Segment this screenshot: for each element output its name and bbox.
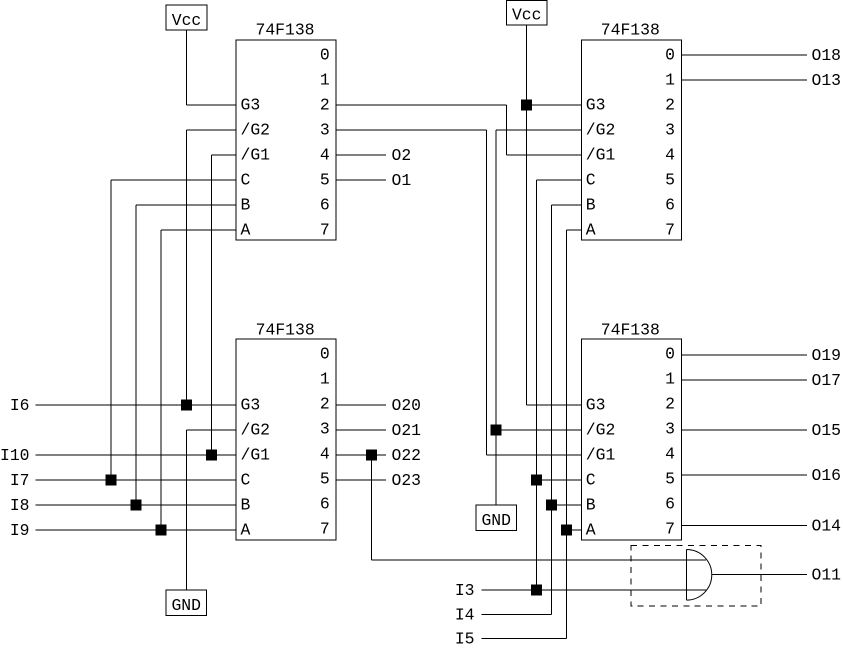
svg-text:O17: O17: [812, 371, 842, 390]
wire U3./G2 to GND1 vertical: [186, 430, 188, 590]
svg-text:A: A: [241, 520, 251, 539]
wire U1 pin2 to U2./G1 segment2: [506, 105, 508, 155]
svg-text:G3: G3: [586, 395, 606, 414]
svg-text:7: 7: [665, 221, 675, 240]
svg-text:5: 5: [320, 469, 330, 488]
junction U4.C junction: [531, 475, 542, 486]
svg-text:6: 6: [320, 494, 330, 513]
wire U1.C to net I7 vertical: [110, 180, 112, 480]
junction VCC2-U2.G3: [521, 100, 532, 111]
wire U2.C to net I3 vertical: [536, 180, 538, 590]
power symbol VCC2 box: [507, 1, 548, 26]
svg-text:I10: I10: [0, 446, 30, 465]
svg-text:2: 2: [665, 394, 675, 413]
wire GND net to GND2 vertical: [495, 430, 497, 505]
svg-text:/G1: /G1: [586, 145, 616, 164]
wire net I9 horizontal: [36, 529, 237, 531]
svg-text:G3: G3: [241, 95, 261, 114]
svg-text:C: C: [586, 470, 596, 489]
wire U3./G2 horizontal: [187, 429, 237, 431]
wire U2.A horizontal: [567, 229, 582, 231]
svg-text:2: 2: [665, 96, 675, 115]
svg-text:Vcc: Vcc: [512, 6, 542, 25]
wire U1.A to net I9 vertical: [160, 230, 162, 530]
wire U1.C horizontal: [111, 179, 236, 181]
wire U4./G2 horizontal: [496, 429, 581, 431]
svg-text:GND: GND: [481, 511, 511, 530]
wire net I5 horizontal: [482, 638, 567, 640]
svg-text:7: 7: [665, 519, 675, 538]
wire U1.B to net I8 vertical: [135, 205, 137, 505]
svg-text:O2: O2: [392, 146, 412, 165]
wire U3 pin5 output stub: [336, 479, 386, 481]
svg-text:1: 1: [665, 71, 675, 90]
svg-text:74F138: 74F138: [601, 21, 660, 40]
svg-text:B: B: [241, 195, 251, 214]
power symbol VCC1 box: [166, 5, 207, 30]
junction net I9: [156, 525, 167, 536]
svg-text:6: 6: [665, 494, 675, 513]
svg-text:I6: I6: [10, 396, 30, 415]
wire U4 output wire O14: [681, 525, 807, 527]
junction U4.A junction: [561, 525, 572, 536]
wire U1 pin5 output stub: [336, 179, 386, 181]
wire U1./G2 to net I6 vertical: [186, 130, 188, 405]
wire net I10 horizontal: [36, 454, 237, 456]
svg-text:I9: I9: [10, 521, 30, 540]
svg-text:7: 7: [320, 519, 330, 538]
svg-text:6: 6: [320, 196, 330, 215]
svg-text:O21: O21: [392, 421, 422, 440]
svg-text:I7: I7: [10, 471, 30, 490]
svg-text:O23: O23: [392, 471, 422, 490]
svg-text:0: 0: [320, 46, 330, 65]
wire U3 pin3 output stub: [336, 429, 386, 431]
decoder U1 body: [236, 40, 336, 240]
svg-text:4: 4: [320, 146, 330, 165]
wire U1 pin2 to U2./G1 segment1: [336, 104, 507, 106]
svg-text:B: B: [586, 495, 596, 514]
decoder U3 body: [236, 339, 336, 540]
svg-text:A: A: [586, 220, 596, 239]
svg-text:0: 0: [320, 344, 330, 363]
wire net O22 to gate horizontal: [372, 559, 707, 561]
svg-text:4: 4: [665, 146, 675, 165]
wire VCC1 to U1.G3 vertical: [186, 30, 188, 105]
svg-text:I4: I4: [455, 606, 475, 625]
wire U1 pin3 to U4./G1 segment3: [487, 454, 582, 456]
svg-text:1: 1: [320, 71, 330, 90]
junction net I6: [181, 400, 192, 411]
decoder U4 body: [581, 339, 681, 540]
svg-text:O22: O22: [392, 446, 422, 465]
wire U2.G3 horizontal: [527, 104, 582, 106]
svg-text:O1: O1: [392, 171, 412, 190]
wire net O22 to gate vertical: [371, 455, 373, 560]
svg-text:Vcc: Vcc: [172, 11, 202, 30]
wire U2.A to net I5 vertical: [566, 230, 568, 639]
wire U2./G2 to U4./G2 vertical: [495, 130, 497, 430]
wire VCC1 to U1.G3 horizontal: [187, 104, 237, 106]
svg-text:/G2: /G2: [586, 420, 616, 439]
wire U2 pin0 output wire: [681, 54, 807, 56]
wire U4.C horizontal: [537, 479, 582, 481]
wire U4 output wire O17: [681, 379, 807, 381]
svg-text:C: C: [241, 170, 251, 189]
svg-text:74F138: 74F138: [255, 21, 314, 40]
svg-text:I8: I8: [10, 496, 30, 515]
wire U1.A horizontal: [161, 229, 236, 231]
svg-text:O19: O19: [812, 346, 842, 365]
wire U4 output wire O15: [681, 429, 807, 431]
junction net O22: [366, 450, 377, 461]
svg-text:0: 0: [665, 344, 675, 363]
wire net I4 horizontal: [482, 614, 552, 616]
wire U3 pin2 output stub: [336, 404, 386, 406]
wire U2 pin1 output wire: [681, 79, 807, 81]
wire VCC2 down vertical: [526, 25, 528, 405]
wire U2.B to net I4 vertical: [551, 205, 553, 615]
svg-text:6: 6: [665, 196, 675, 215]
svg-text:O16: O16: [812, 466, 842, 485]
junction net I8: [131, 500, 142, 511]
wire U3 pin4 output stub: [336, 454, 386, 456]
wire U2.C horizontal: [537, 179, 582, 181]
wire U1.B horizontal: [136, 204, 236, 206]
svg-text:/G2: /G2: [586, 120, 616, 139]
svg-text:O11: O11: [812, 565, 842, 584]
svg-text:C: C: [241, 470, 251, 489]
junction GND net junction: [491, 425, 502, 436]
svg-text:2: 2: [320, 96, 330, 115]
wire net I3 horizontal: [482, 589, 707, 591]
svg-text:O20: O20: [392, 396, 422, 415]
svg-text:/G1: /G1: [586, 445, 616, 464]
svg-text:/G2: /G2: [241, 120, 271, 139]
svg-text:/G1: /G1: [241, 145, 271, 164]
ground symbol GND2 box: [476, 505, 517, 531]
wire U4 output wire O16: [681, 474, 807, 476]
ground symbol GND1 box: [166, 590, 207, 616]
svg-text:5: 5: [665, 469, 675, 488]
wire U2./G2 horizontal: [496, 129, 581, 131]
svg-text:0: 0: [665, 46, 675, 65]
svg-text:O14: O14: [812, 516, 842, 535]
svg-text:74F138: 74F138: [601, 321, 660, 340]
svg-text:3: 3: [665, 419, 675, 438]
wire U4 output wire O19: [681, 354, 807, 356]
wire U4.A horizontal: [567, 529, 582, 531]
svg-text:/G1: /G1: [241, 445, 271, 464]
svg-text:5: 5: [320, 171, 330, 190]
wire net I6 horizontal: [36, 404, 237, 406]
wire VCC2 to U4.G3 horizontal: [527, 404, 582, 406]
wire net I8 horizontal: [36, 504, 237, 506]
decoder U2 body: [581, 40, 681, 240]
svg-text:A: A: [586, 520, 596, 539]
svg-text:O15: O15: [812, 421, 842, 440]
wire U1./G1 horizontal: [212, 154, 237, 156]
svg-text:I3: I3: [455, 581, 475, 600]
wire U2.B horizontal: [552, 204, 582, 206]
wire U1 pin3 to U4./G1 segment2: [486, 130, 488, 455]
junction net I7: [106, 475, 117, 486]
svg-text:G3: G3: [586, 95, 606, 114]
svg-text:G3: G3: [241, 395, 261, 414]
svg-text:O13: O13: [812, 71, 842, 90]
svg-text:7: 7: [320, 221, 330, 240]
svg-text:O18: O18: [812, 46, 842, 65]
svg-text:3: 3: [665, 121, 675, 140]
svg-text:5: 5: [665, 171, 675, 190]
svg-text:4: 4: [320, 444, 330, 463]
wire U1./G1 to net I10 vertical: [211, 155, 213, 455]
junction net I10: [206, 450, 217, 461]
junction U4.B junction: [546, 500, 557, 511]
wire U1./G2 horizontal: [187, 129, 237, 131]
wire U1 pin3 to U4./G1 segment1: [336, 129, 487, 131]
wire gate G1 output wire: [712, 574, 807, 576]
wire U1 pin4 output stub: [336, 154, 386, 156]
svg-text:2: 2: [320, 394, 330, 413]
svg-text:GND: GND: [171, 596, 201, 615]
svg-text:1: 1: [320, 369, 330, 388]
svg-text:4: 4: [665, 444, 675, 463]
wire net I7 horizontal: [36, 479, 237, 481]
svg-text:I5: I5: [455, 630, 475, 649]
and-gate dashed outline: [631, 546, 761, 607]
wire U4.B horizontal: [552, 504, 582, 506]
and-gate G1 body: [687, 550, 712, 601]
wire U1 pin2 to U2./G1 segment3: [507, 154, 582, 156]
svg-text:A: A: [241, 220, 251, 239]
svg-text:3: 3: [320, 121, 330, 140]
svg-text:/G2: /G2: [241, 420, 271, 439]
svg-text:74F138: 74F138: [256, 321, 315, 340]
svg-text:3: 3: [320, 419, 330, 438]
junction net I3 junction: [531, 585, 542, 596]
svg-text:B: B: [586, 195, 596, 214]
svg-text:1: 1: [665, 369, 675, 388]
svg-text:B: B: [241, 495, 251, 514]
svg-text:C: C: [586, 170, 596, 189]
